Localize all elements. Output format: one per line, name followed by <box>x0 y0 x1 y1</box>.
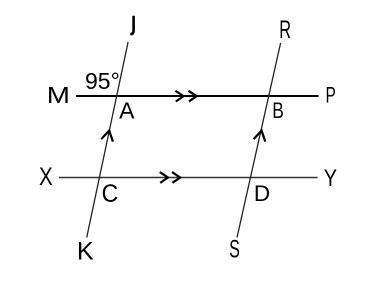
transversal RS <box>237 43 281 238</box>
svg-text:S: S <box>229 236 240 264</box>
parallel mark 2 on line XY <box>172 172 180 183</box>
label J <box>130 16 133 34</box>
svg-text:P: P <box>326 83 336 108</box>
parallel mark 1 on line MP <box>175 91 183 102</box>
svg-text:Y: Y <box>324 165 337 192</box>
parallel mark (arrowhead) on transversal JK <box>101 131 113 142</box>
svg-text:X: X <box>39 164 53 191</box>
line XY (bottom horizontal line) <box>59 177 318 179</box>
svg-text:D: D <box>254 181 270 206</box>
parallel mark 1 on line XY <box>160 172 168 183</box>
svg-text:M: M <box>47 82 70 108</box>
svg-text:B: B <box>272 98 284 123</box>
svg-text:A: A <box>119 98 135 124</box>
svg-text:R: R <box>279 16 291 44</box>
transversal JK <box>87 42 128 238</box>
svg-text:C: C <box>102 181 119 208</box>
svg-text:95°: 95° <box>85 68 120 94</box>
parallel mark 2 on line MP <box>189 91 197 102</box>
parallel mark (arrowhead) on transversal RS <box>254 131 266 142</box>
line MP (top horizontal line) <box>76 95 319 97</box>
svg-text:K: K <box>77 238 94 266</box>
